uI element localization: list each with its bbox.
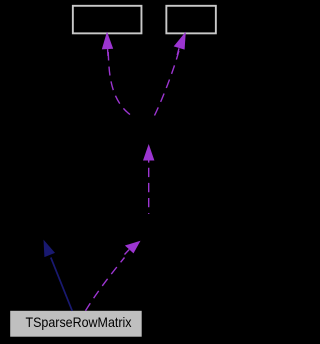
arrowhead purple top-right xyxy=(174,32,186,55)
arrowhead blue xyxy=(44,240,56,258)
edge dashed curve to top-right box (purple) xyxy=(155,51,180,116)
arrowhead purple top-left xyxy=(102,32,113,56)
edge dashed lower-right (purple) xyxy=(86,258,125,311)
edge dashed curve to top-left box (purple) xyxy=(108,52,130,115)
arrowhead purple vertical xyxy=(143,144,154,163)
node TSparseRowMatrix xyxy=(10,311,142,337)
arrowhead purple lower xyxy=(125,241,141,255)
edge solid inheritance (blue) xyxy=(51,258,72,311)
node box top-right (empty) xyxy=(166,6,216,34)
edge dashed vertical (purple) xyxy=(148,168,150,214)
node box top-left (empty) xyxy=(73,6,142,34)
svg-text:TSparseRowMatrix: TSparseRowMatrix xyxy=(26,314,132,330)
